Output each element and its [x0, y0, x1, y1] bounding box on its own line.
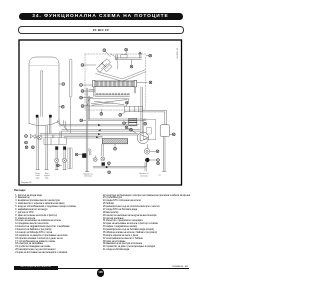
three-way valve motor: [82, 153, 87, 158]
balloon 33: [149, 81, 152, 84]
junction: [145, 158, 149, 162]
flow arrows: [96, 124, 101, 138]
balloon 15: [119, 114, 122, 117]
balloon 22 leader: [82, 84, 92, 86]
drain cock (bowtie): [30, 134, 37, 138]
junction dot: [106, 166, 108, 168]
fan assembly: [97, 54, 118, 72]
balloon fan: [130, 65, 133, 68]
balloon 29: [103, 49, 106, 52]
flue pipe to balloon 33: [137, 82, 148, 84]
balloon riser leader: [83, 119, 87, 121]
balloon 6: [75, 153, 78, 156]
svg-text:вода: вода: [36, 177, 40, 179]
elbow from riser: [88, 149, 91, 155]
balloon 19 leader: [84, 105, 87, 107]
balloon 25 leader: [59, 106, 61, 108]
ignition box: [124, 106, 143, 111]
svg-text:9912231.00: 9912231.00: [177, 47, 179, 58]
strainer valve 2: [101, 157, 105, 161]
sealed chamber (dashed): [85, 54, 146, 110]
burner body: [87, 96, 130, 119]
svg-text:Вход: Вход: [45, 173, 49, 175]
balloon 11: [114, 147, 117, 150]
DHW pipes bottom: [93, 144, 147, 171]
balloon 21 leader: [84, 90, 95, 92]
balloon 4 leader: [150, 150, 156, 152]
DHW outlet valve: [144, 149, 150, 155]
balloon 25: [61, 105, 64, 108]
balloon 8: [25, 146, 28, 149]
balloon 18: [126, 101, 129, 104]
flue bracket: [115, 52, 142, 60]
balloon 29 leader: [105, 51, 110, 57]
balloon 21: [81, 90, 84, 93]
combustion chamber walls: [89, 87, 136, 96]
svg-text:студена: студена: [44, 175, 50, 177]
circuit schematic SVG: [0, 0, 200, 283]
balloon 12: [130, 128, 133, 131]
balloon 6 leader: [78, 154, 82, 156]
balloon 16 leader: [100, 110, 102, 113]
gas solenoid stack: [129, 118, 137, 125]
DHW manifold box: [44, 138, 67, 145]
model lozenge: [18, 26, 184, 34]
balloon 11 leader: [114, 144, 116, 148]
burner flame row: [96, 93, 130, 95]
svg-text:отопление: отопление: [84, 176, 92, 178]
pump housing: [143, 120, 155, 140]
balloon b0: [108, 162, 111, 165]
gas inlet pipe: [163, 137, 165, 172]
strainer valve 1: [93, 156, 97, 162]
gas supply pipe: [88, 119, 146, 121]
balloon 32: [149, 54, 152, 57]
balloon 4: [156, 150, 159, 153]
svg-text:отопление: отопление: [140, 175, 148, 177]
svg-text:Подаване на: Подаване на: [83, 173, 93, 175]
balloon 14 leader: [125, 122, 128, 123]
balloon 28: [81, 64, 84, 67]
svg-text:Рисунок 14: Рисунок 14: [21, 182, 32, 184]
legend left column: [15, 195, 76, 255]
footer right text: [156, 266, 188, 268]
balloon 2: [157, 162, 160, 165]
bottom pipe labels: [35, 173, 161, 179]
balloon fan leader: [131, 59, 133, 65]
storage tank: [29, 57, 59, 126]
sensor pocket caps: [36, 115, 52, 118]
title banner: [19, 13, 183, 20]
valve 2 cap: [102, 162, 105, 165]
balloon 26: [62, 83, 65, 86]
footer caption bar: [14, 266, 58, 269]
balloon 14b: [144, 122, 147, 125]
balloon 26 leader: [59, 83, 62, 85]
pipe end caps: [36, 170, 166, 172]
balloon 20 leader: [82, 97, 93, 99]
balloon 31 leader: [125, 51, 127, 55]
balloon 20: [80, 96, 83, 99]
balloon 13: [125, 126, 128, 129]
combustion hood: [96, 70, 146, 82]
riser to pump: [141, 87, 167, 134]
balloon 7: [32, 146, 35, 149]
balloon 3 leader: [150, 159, 157, 161]
svg-text:Връщане от: Връщане от: [140, 173, 149, 175]
pump: [137, 132, 149, 144]
footer rule: [14, 267, 189, 270]
balloon b2: [108, 171, 111, 174]
balloon 3: [157, 159, 160, 162]
fill valve circle: [37, 135, 42, 140]
svg-text:топла: топла: [35, 175, 39, 177]
tank inner tube: [41, 70, 43, 116]
balloon 1 leader: [169, 133, 172, 135]
balloon 10: [25, 135, 28, 138]
balloon 28 leader: [84, 64, 96, 66]
balloon 15 leader: [121, 112, 126, 115]
balloon b0 leader: [108, 165, 110, 167]
legend right column: [103, 195, 190, 253]
balloon 19: [81, 105, 84, 108]
expansion inlet vessel: [160, 125, 169, 137]
balloon 32 leader: [146, 55, 149, 57]
balloon 5: [57, 164, 60, 167]
valve actuator caps: [55, 146, 66, 149]
DHW plate exchanger: [102, 139, 127, 144]
balloon 5 leader: [59, 164, 62, 166]
CH flow/return runs: [40, 124, 140, 138]
figure caption: [21, 182, 32, 184]
svg-text:Изход: Изход: [35, 173, 40, 175]
balloon 9: [25, 141, 28, 144]
check valves: [55, 158, 67, 162]
air vent tube: [69, 59, 72, 131]
bypass dashed box: [68, 148, 73, 169]
drawing number (rotated): [177, 47, 179, 58]
main riser pipe: [86, 88, 88, 172]
balloon 22: [80, 84, 83, 87]
tank feed pipes: [37, 118, 65, 170]
svg-text:газ: газ: [158, 175, 160, 177]
balloon 13 leader: [128, 128, 136, 133]
balloon 16: [100, 113, 103, 116]
svg-text:вода: вода: [45, 177, 49, 179]
balloon 31: [125, 48, 128, 51]
balloon 1: [172, 133, 175, 136]
balloon riser: [80, 119, 83, 122]
balloon 14: [123, 122, 126, 125]
pipe elbows left: [53, 120, 71, 138]
page number circle: [97, 269, 104, 276]
main heat exchanger: [93, 80, 137, 87]
legend title: [14, 189, 26, 192]
